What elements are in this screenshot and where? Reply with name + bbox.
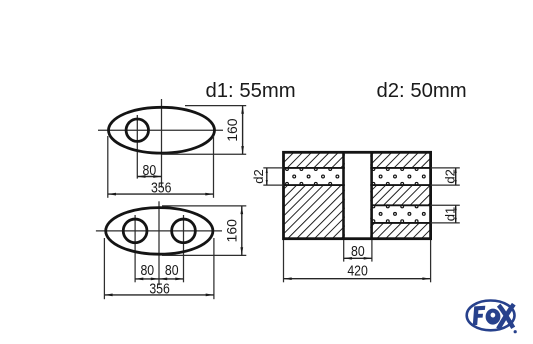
svg-text:80: 80 bbox=[351, 243, 365, 259]
svg-text:d2: 50mm: d2: 50mm bbox=[377, 80, 467, 102]
svg-text:d1: 55mm: d1: 55mm bbox=[206, 80, 296, 102]
svg-text:420: 420 bbox=[347, 262, 368, 278]
svg-text:356: 356 bbox=[151, 179, 172, 195]
svg-text:d2: d2 bbox=[251, 169, 266, 183]
svg-text:160: 160 bbox=[224, 118, 240, 142]
svg-text:160: 160 bbox=[223, 219, 239, 243]
svg-text:80: 80 bbox=[140, 262, 154, 278]
svg-text:356: 356 bbox=[149, 280, 170, 296]
svg-text:d2: d2 bbox=[443, 169, 458, 183]
svg-text:80: 80 bbox=[143, 162, 157, 178]
svg-text:80: 80 bbox=[165, 262, 179, 278]
svg-text:d1: d1 bbox=[443, 207, 458, 221]
